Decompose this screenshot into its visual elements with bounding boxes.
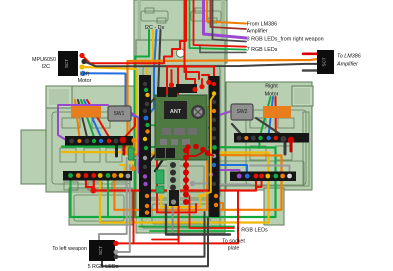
wire: purple SW2 xyxy=(212,111,240,176)
chassis: center plate xyxy=(136,40,225,233)
wire: red bottom SCT line xyxy=(115,190,238,243)
svg-text:To LM386: To LM386 xyxy=(337,54,361,60)
header: right wing row2 xyxy=(230,172,296,182)
wire: orange label From LM386 xyxy=(207,0,246,24)
svg-text:7 RGB LEDs: 7 RGB LEDs xyxy=(247,47,278,53)
svg-text:I2C - Ds: I2C - Ds xyxy=(145,25,165,31)
svg-text:SCT: SCT xyxy=(322,57,327,66)
chassis panel details xyxy=(52,8,309,228)
svg-text:5 RGB LEDs: 5 RGB LEDs xyxy=(88,264,119,270)
wire: blue right row2 xyxy=(214,165,247,176)
chassis: left wing xyxy=(21,86,136,225)
wire: orange right header pin L xyxy=(216,203,223,210)
SW2 xyxy=(231,104,253,120)
wire: red drop to SCT line xyxy=(133,191,135,244)
wire: green long left vertical xyxy=(135,30,150,217)
SW1 xyxy=(108,106,131,121)
svg-text:SW2: SW2 xyxy=(237,109,248,115)
wire: red slant from row1 left big dot xyxy=(123,118,135,139)
svg-text:7 RGB LEDs: 7 RGB LEDs xyxy=(237,228,268,234)
wire: dark top slot drop xyxy=(149,30,161,104)
right motor cap xyxy=(292,86,313,106)
wire: green vertical row2 pin to serpent xyxy=(107,180,109,216)
wire: yellow L into row2 xyxy=(120,165,125,174)
wire: blue MPU xyxy=(83,73,146,118)
SCT to LM386 xyxy=(317,50,334,74)
orange bar right xyxy=(263,106,291,118)
svg-text:From LM386: From LM386 xyxy=(247,22,278,28)
orange junction dots xyxy=(133,141,134,169)
wire: gray label 7rgb third xyxy=(200,45,246,52)
svg-text:Right: Right xyxy=(265,84,278,90)
svg-text:SW1: SW1 xyxy=(114,111,125,117)
wire: gray label amplifier2 xyxy=(211,0,247,29)
wire: dark label pair xyxy=(213,0,247,42)
wire: red pads vertical + 7rgb xyxy=(185,150,187,196)
svg-text:plate: plate xyxy=(228,246,240,252)
header: left wing row1 xyxy=(65,136,133,146)
wire: black stubs below rows xyxy=(115,145,118,156)
wire: black bottom SCT long xyxy=(115,212,205,257)
wire: green serpent header->right row2->across bottom->left row2 xyxy=(62,147,276,218)
svg-text:Motor: Motor xyxy=(265,92,279,98)
wire: yellow along right header xyxy=(201,94,216,197)
header: center left vertical xyxy=(139,75,151,217)
svg-text:3 RGB LEDs_from right weapon: 3 RGB LEDs_from right weapon xyxy=(247,37,324,43)
wire: yellow slot to header pin xyxy=(147,30,153,95)
svg-text:Amplifier: Amplifier xyxy=(247,29,268,35)
wire: yellow serpent xyxy=(82,67,269,223)
orange bar left xyxy=(71,106,101,118)
wire: dark to socket plate xyxy=(166,205,230,235)
wire: red big U bottom xyxy=(86,176,256,191)
wire: red MPU staircase xyxy=(82,0,186,63)
wire: purple SW1 xyxy=(58,105,108,140)
wire: orange center vertical xyxy=(207,107,214,210)
green LED left of header xyxy=(129,148,135,160)
chassis: top plate xyxy=(134,0,227,63)
hole top plate xyxy=(176,49,184,57)
svg-text:To socket: To socket xyxy=(222,239,245,245)
svg-text:To left weapon: To left weapon xyxy=(52,246,87,252)
wire: gray row2 white pin stub xyxy=(250,166,290,173)
pot xyxy=(191,105,205,119)
wire: purple label thick xyxy=(204,0,247,38)
svg-text:SCT: SCT xyxy=(64,59,69,68)
SCT MPU6050 xyxy=(58,51,87,76)
svg-text:MPU6050: MPU6050 xyxy=(32,57,56,63)
wire: red 212 short xyxy=(157,152,196,212)
svg-text:ANT: ANT xyxy=(170,109,182,115)
yellow U dots xyxy=(159,195,164,200)
wire: gray vertical center low xyxy=(172,206,174,232)
header: center right vertical xyxy=(209,76,220,217)
left motor cap xyxy=(46,86,72,108)
wire: yellow serpent left arm xyxy=(62,151,137,154)
wire: yellow center U xyxy=(161,196,200,207)
wire: red module staircase xyxy=(167,67,214,96)
wire: gray dot wire center xyxy=(193,183,210,185)
wire: gray bottom SCT xyxy=(115,162,130,252)
wire: orange serpent SCT->down->across->right row2->bottom->left row2 xyxy=(114,59,318,210)
header: right wing row1 xyxy=(234,133,309,143)
wire: blue top slot drop xyxy=(146,30,157,118)
svg-text:Amplifier: Amplifier xyxy=(336,62,358,68)
wire: black SCT stub xyxy=(303,69,318,72)
wire: green cross line xyxy=(148,125,215,128)
wire: module bottom black slants xyxy=(147,153,157,164)
wire: red label top xyxy=(194,0,247,47)
SCT left weapon xyxy=(89,240,119,261)
green LED components xyxy=(156,170,164,184)
svg-text:SCT: SCT xyxy=(98,246,103,255)
wire: green top label xyxy=(190,0,247,50)
svg-text:Motor: Motor xyxy=(78,78,92,84)
wire: red SCT stub xyxy=(303,52,318,55)
gray dot xyxy=(190,181,195,186)
wire: left motor bundle xyxy=(78,100,87,137)
wire: black MPU to SCT xyxy=(84,62,318,67)
wire: green bottom label lines xyxy=(139,226,234,228)
center pad columns xyxy=(167,148,189,207)
svg-text:I2C: I2C xyxy=(42,64,50,70)
chassis: right wing xyxy=(226,82,313,225)
wire: red module center vertical xyxy=(172,67,178,154)
wire: right motor bundle xyxy=(261,97,271,134)
wire: red top pair drop xyxy=(185,0,200,79)
svg-text:Left: Left xyxy=(80,72,89,78)
red dots junctions xyxy=(90,188,96,194)
chip ANT xyxy=(164,101,187,119)
header: left wing row2 xyxy=(63,171,132,181)
